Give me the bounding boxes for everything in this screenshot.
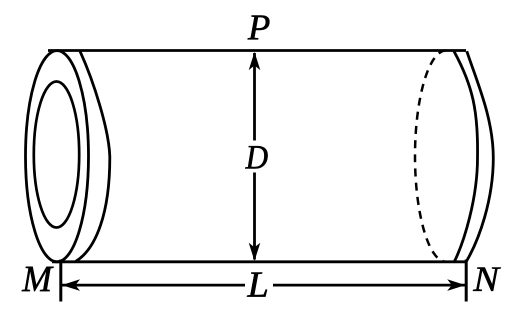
dimension D arrow shaft upper segment xyxy=(253,53,256,141)
right rim outer arc xyxy=(466,51,493,261)
dimension D upper arrowhead xyxy=(249,52,261,70)
dimension L left arrowhead xyxy=(62,279,80,291)
label N xyxy=(473,268,501,291)
node N tick mark xyxy=(465,260,468,302)
node M tick mark xyxy=(59,260,62,302)
left face outer ellipse xyxy=(26,51,89,262)
label P xyxy=(248,15,270,39)
dimension L right arrowhead xyxy=(447,279,465,291)
label D xyxy=(245,146,267,168)
right end edge solid right half ellipse xyxy=(454,51,478,261)
dimension L arrow shaft right segment xyxy=(273,284,465,287)
label L xyxy=(247,272,267,296)
dimension D lower arrowhead xyxy=(249,243,261,261)
wire: cylinder bottom line xyxy=(52,260,466,263)
dimension D arrow shaft lower segment xyxy=(253,173,256,260)
dimension L arrow shaft left segment xyxy=(62,284,245,287)
right end hidden edge (dashed left half ellipse) xyxy=(415,51,446,262)
left rim back arc xyxy=(76,51,110,261)
wire: cylinder top line xyxy=(48,49,466,52)
left face inner hole ellipse xyxy=(34,82,79,228)
label M xyxy=(22,267,54,291)
